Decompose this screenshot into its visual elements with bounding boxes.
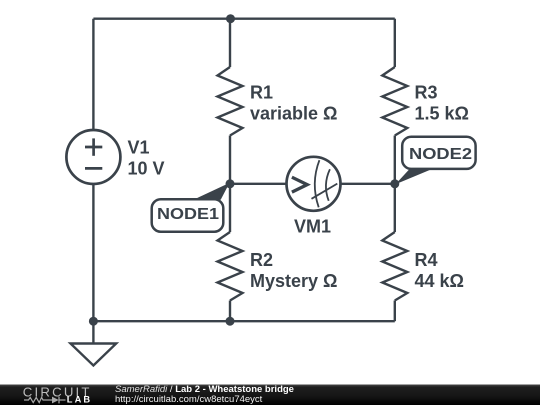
svg-text:http://circuitlab.com/cw8etcu7: http://circuitlab.com/cw8etcu74eyct xyxy=(115,394,263,405)
svg-text:NODE1: NODE1 xyxy=(157,206,219,223)
svg-text:44 kΩ: 44 kΩ xyxy=(415,271,464,291)
svg-text:V1: V1 xyxy=(128,138,150,158)
svg-text:10 V: 10 V xyxy=(128,159,165,179)
svg-text:Mystery Ω: Mystery Ω xyxy=(250,271,337,291)
svg-text:VM1: VM1 xyxy=(294,217,331,237)
svg-text:R4: R4 xyxy=(415,250,438,270)
svg-text:NODE2: NODE2 xyxy=(409,146,472,163)
svg-text:R3: R3 xyxy=(415,83,438,103)
svg-text:R1: R1 xyxy=(250,83,273,103)
svg-text:LAB: LAB xyxy=(67,395,92,405)
svg-text:1.5 kΩ: 1.5 kΩ xyxy=(415,104,469,124)
svg-text:R2: R2 xyxy=(250,250,273,270)
svg-text:variable Ω: variable Ω xyxy=(250,104,337,124)
